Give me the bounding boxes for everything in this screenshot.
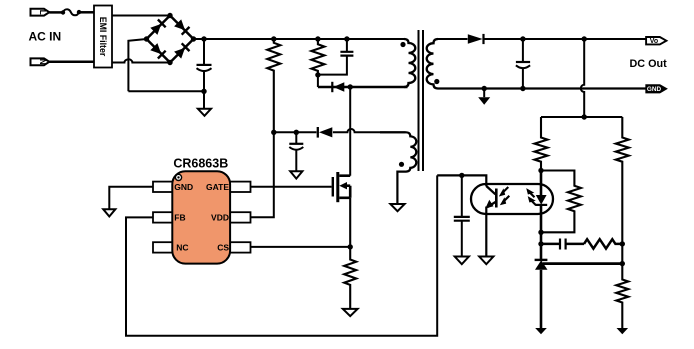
wire bottom return [128,90,204,92]
IC U1 CR6863B [153,157,251,264]
connector L [31,9,50,16]
LED light arrows [526,188,536,205]
svg-text:NC: NC [176,243,188,253]
VDD capacitor C3 [289,130,303,171]
bridge rectifier BD1 [144,13,196,65]
connector Vo [646,37,666,45]
FB filter capacitor C5 [454,175,470,256]
diode B-R [174,43,190,59]
ground TL431 (filled) [535,328,547,334]
wire snubber down [317,75,319,87]
snubber diode D2 (pointing left) [332,82,344,92]
svg-text:VDD: VDD [211,213,229,223]
connector GND [646,85,666,93]
ground below opto emitter [479,257,493,265]
ground below bulk cap [198,91,211,116]
snubber capacitor C2 [318,36,354,74]
diode L-T [150,20,166,36]
svg-text:EMI Filter: EMI Filter [98,17,108,57]
ground secondary [478,86,490,105]
wire L to fuse [49,11,63,14]
svg-text:GATE: GATE [206,182,229,192]
ground below C5 [455,257,469,265]
transformer core [419,30,424,171]
output diode D1 [468,34,484,44]
svg-text:N: N [38,59,47,65]
wire GATE to MOSFET [251,186,332,188]
svg-text:CR6863B: CR6863B [173,157,228,171]
compensation network wire [538,241,543,246]
svg-text:AC IN: AC IN [29,30,62,44]
GND rail secondary [438,87,648,89]
fuse F1 [61,9,94,15]
wire CS pin [251,246,351,248]
wire FB node to opto collector [437,175,486,186]
sense resistor R3 [344,198,356,309]
svg-text:CS: CS [217,243,229,253]
wire drain [349,87,351,176]
MOSFET Q1 [333,172,350,202]
divider split wire [541,116,622,118]
lower divider resistor R8 [616,264,628,328]
wire VDD vertical to pin [251,132,274,217]
opto light arrows [499,187,510,205]
wire EMI to bridge top [112,15,170,17]
LED bypass resistor R6 [541,171,581,233]
VDD diode D3 (pointing left) [318,127,333,138]
svg-text:GND: GND [174,182,193,192]
compensation capacitor C6 [560,239,566,250]
TL431 U3 [535,232,548,328]
feedback divider vertical with hop [581,36,587,119]
TL431 ref line [543,262,622,265]
ground below VDD cap [290,171,302,178]
transformer T1 secondary [427,39,440,89]
svg-text:DC Out: DC Out [630,58,668,70]
transformer T1 primary [400,39,415,87]
svg-text:Vo: Vo [650,38,658,45]
node drain/primary [348,84,353,89]
opto LED [536,171,548,233]
connector N [31,58,50,65]
svg-text:GND: GND [647,86,662,93]
Vo rail [484,38,649,40]
VDD supply line with hop over drain [274,129,406,132]
upper bias resistor R4 (left branch) [535,117,548,171]
wire EMI to bridge bottom (hop over DC- wire) [112,59,170,62]
diode T-R [174,19,190,35]
wire FB loop [126,175,437,335]
ground IC GND [103,209,115,216]
EMI filter block [94,6,112,68]
opto phototransistor [485,186,496,256]
svg-text:FB: FB [174,213,185,223]
svg-text:L: L [38,10,47,15]
main DC+ rail [194,38,405,40]
wire N to EMI [49,61,94,64]
wire bridge minus down [128,39,146,91]
secondary top lead [438,38,468,40]
snubber resistor R2 [311,36,324,77]
ground divider (filled) [617,328,629,334]
upper divider resistor R5 (right branch) [616,117,629,264]
optocoupler U2 body [471,184,553,214]
transformer aux winding [380,132,416,204]
output capacitor C4 [516,36,530,91]
bulk capacitor C1 [197,36,212,94]
startup resistor R1 [267,36,280,132]
compensation resistor R7 [584,239,622,248]
snubber diode line [318,86,408,89]
wire GND pin to ground [109,187,153,209]
diode L-B [150,43,166,59]
ground below sense resistor [343,309,358,316]
ground below aux winding [390,204,404,211]
